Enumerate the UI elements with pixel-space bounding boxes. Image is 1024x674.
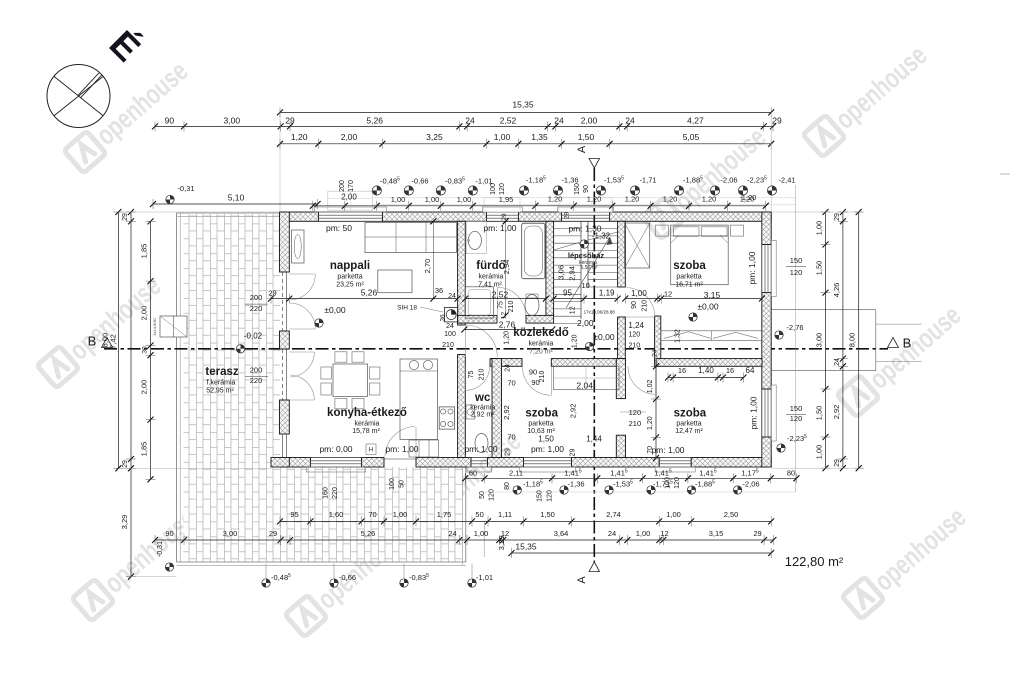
wall konyha-wc vertical: [458, 355, 466, 458]
svg-text:150: 150: [537, 490, 544, 502]
svg-text:24: 24: [608, 529, 616, 538]
terrace outline right double edge: [461, 467, 463, 565]
left guide lines: [118, 211, 279, 213]
svg-text:200: 200: [250, 293, 263, 302]
kitchen stove: [439, 407, 454, 429]
svg-text:2,00: 2,00: [577, 318, 594, 328]
svg-text:3,29: 3,29: [120, 515, 129, 530]
wc sink: [466, 405, 475, 419]
svg-text:220: 220: [250, 304, 263, 313]
left wall konyha window 160 glazing: [283, 433, 287, 435]
svg-text:1,20: 1,20: [742, 193, 757, 202]
svg-text:2,52: 2,52: [492, 290, 509, 300]
top szoba nightstands: [656, 225, 669, 236]
svg-text:220: 220: [332, 487, 339, 499]
staircase treads right flight: [588, 228, 618, 230]
left wall terrace door nappali 200/220 glazing: [282, 272, 284, 331]
compass north double pointer: [78, 73, 99, 96]
compass cross line 1: [54, 77, 103, 116]
svg-text:3,00: 3,00: [815, 333, 824, 348]
bottom level markers under terrace: [262, 579, 270, 587]
svg-text:120: 120: [488, 489, 495, 501]
svg-text:95: 95: [290, 510, 298, 519]
top dimension chain row 2: [155, 125, 773, 127]
bottom total 15.35: [512, 552, 772, 554]
svg-text:16,71 m²: 16,71 m²: [675, 282, 703, 289]
svg-text:29: 29: [834, 213, 841, 221]
wall wc-szoba middle: [492, 359, 502, 458]
svg-text:150: 150: [574, 183, 581, 195]
terrace brick paving (left strip): [184, 214, 281, 562]
svg-text:SIH 18: SIH 18: [397, 305, 417, 312]
svg-text:24: 24: [448, 293, 456, 300]
svg-text:2,00: 2,00: [140, 306, 149, 321]
svg-text:2,00: 2,00: [341, 132, 358, 142]
svg-text:-1,185: -1,185: [523, 480, 543, 489]
svg-text:80: 80: [504, 482, 511, 490]
bottom exterior wall segments: [280, 458, 310, 468]
svg-text:szoba: szoba: [525, 408, 558, 420]
svg-text:1,00: 1,00: [666, 510, 681, 519]
svg-text:29: 29: [834, 459, 841, 467]
svg-text:A: A: [576, 145, 588, 153]
right guide lines: [771, 211, 859, 213]
staircase break line: [554, 242, 581, 250]
watermark cluster 6: [72, 503, 202, 622]
door furdo: [497, 288, 499, 316]
svg-text:29: 29: [122, 213, 129, 221]
top szoba interior dim 1,00|12|3,15: [625, 298, 762, 300]
svg-text:24: 24: [446, 323, 454, 330]
svg-text:1,50: 1,50: [578, 132, 595, 142]
watermark cluster 2: [642, 121, 772, 240]
svg-text:24: 24: [625, 115, 635, 125]
window szoba-right bottom 100: [658, 458, 660, 468]
svg-text:90: 90: [165, 115, 175, 125]
middle szoba closet 2.04: [554, 366, 620, 389]
guide line below szoba window: [483, 521, 485, 557]
svg-text:pm: 1,00: pm: 1,00: [464, 444, 497, 454]
right eaves guide line: [795, 185, 797, 492]
svg-text:10: 10: [582, 281, 590, 290]
svg-text:közlekedő: közlekedő: [513, 327, 569, 339]
svg-text:-0,485: -0,485: [271, 573, 291, 582]
watermark cluster 1: [64, 55, 194, 174]
svg-text:7,42: 7,42: [109, 334, 118, 349]
kitchen counter: [400, 359, 438, 439]
svg-text:24: 24: [554, 115, 564, 125]
svg-text:1,11: 1,11: [498, 510, 512, 519]
svg-text:2,92 m²: 2,92 m²: [471, 412, 495, 419]
top level row dimension line: [313, 205, 766, 207]
svg-text:1,75: 1,75: [437, 510, 452, 519]
bottom row 3 (90|3,00|29|5,26|24|1,00|12|3,64|24|1,00|12|3,15|29): [155, 539, 773, 541]
nappali interior dim 5.26: [271, 298, 458, 300]
top-left terrace dimension 5.10: [153, 203, 318, 205]
svg-text:12: 12: [501, 312, 508, 320]
svg-text:1,00: 1,00: [636, 529, 651, 538]
svg-text:5,26: 5,26: [361, 288, 378, 298]
svg-text:2,52: 2,52: [500, 115, 517, 125]
svg-text:2,94: 2,94: [502, 260, 511, 275]
svg-text:1,35: 1,35: [531, 132, 548, 142]
top guide ticks row3 to wall: [279, 112, 281, 212]
svg-text:90: 90: [165, 529, 173, 538]
svg-text:1,85: 1,85: [140, 244, 149, 259]
wall lepcsohaz-szoba lower (below stair door): [618, 317, 626, 359]
svg-text:2,11: 2,11: [509, 468, 523, 477]
svg-text:200: 200: [250, 365, 263, 374]
svg-text:1,20: 1,20: [571, 334, 578, 348]
top szoba wardrobe: [625, 223, 650, 268]
top exterior wall segments: [280, 212, 318, 221]
svg-text:konyha-étkező: konyha-étkező: [327, 407, 407, 419]
svg-text:2,92: 2,92: [502, 405, 511, 420]
svg-text:pm: 0,00: pm: 0,00: [319, 444, 352, 454]
svg-text:kerámia: kerámia: [355, 421, 380, 428]
svg-text:1,85: 1,85: [140, 442, 149, 457]
svg-text:1,02: 1,02: [647, 379, 654, 393]
svg-text:29: 29: [501, 213, 508, 221]
svg-text:4,26: 4,26: [832, 283, 841, 298]
left totals: [117, 212, 119, 468]
konyha chairs: [335, 352, 347, 362]
svg-text:1,20: 1,20: [503, 331, 510, 345]
svg-text:120: 120: [547, 490, 554, 502]
svg-text:1,44: 1,44: [586, 435, 602, 444]
svg-text:-0,835: -0,835: [445, 177, 465, 186]
svg-text:1,50: 1,50: [815, 406, 824, 421]
nappali coffee table: [378, 270, 412, 293]
right chain rooms: [842, 212, 844, 468]
svg-text:64: 64: [746, 366, 755, 375]
terrace entry steps: [160, 316, 187, 337]
svg-text:kerámia: kerámia: [529, 341, 554, 348]
bottom level markers row: [513, 486, 521, 494]
svg-text:pm: 1,00: pm: 1,00: [747, 251, 757, 284]
top-left level marker -0.31: [166, 195, 174, 203]
section marker A bottom: [589, 562, 600, 572]
svg-text:3,06: 3,06: [557, 265, 566, 280]
svg-text:-2,06: -2,06: [720, 176, 737, 185]
svg-text:-1,185: -1,185: [526, 176, 546, 185]
svg-text:17x18,06/28,88: 17x18,06/28,88: [584, 310, 616, 315]
fraction lines for stacked dims: [245, 303, 268, 305]
svg-text:150: 150: [790, 256, 803, 265]
terrace brick paving (bottom strip): [280, 467, 462, 562]
svg-text:pm: 1,00: pm: 1,00: [749, 396, 759, 429]
svg-text:-1,01: -1,01: [476, 573, 493, 582]
right level marker -2.23: [777, 444, 785, 452]
svg-text:1,40: 1,40: [698, 366, 714, 375]
svg-text:24: 24: [505, 364, 512, 372]
canopy above furdo window: [484, 198, 520, 212]
svg-text:1,00: 1,00: [631, 289, 647, 298]
svg-text:220: 220: [250, 376, 263, 385]
svg-text:H: H: [369, 448, 373, 454]
svg-text:29: 29: [753, 529, 761, 538]
kozlekedo-wc top wall (right of wc door opening): [490, 359, 522, 367]
staircase center divider: [580, 221, 582, 319]
right chain windows: [825, 212, 827, 468]
svg-text:1,20: 1,20: [663, 195, 678, 204]
terrace outline top edge: [177, 212, 280, 214]
svg-text:2,04: 2,04: [576, 380, 593, 390]
top szoba southwest wall stub: [655, 316, 661, 366]
svg-text:100: 100: [389, 478, 396, 490]
svg-text:1,20: 1,20: [625, 195, 640, 204]
svg-text:szoba: szoba: [674, 408, 707, 420]
svg-text:wc: wc: [474, 392, 491, 404]
door top szoba from stair landing: [625, 316, 654, 318]
roof eaves light lines above north wall: [374, 197, 796, 199]
svg-text:nappali: nappali: [330, 260, 370, 272]
bottom-right szoba interior chain: [655, 366, 657, 458]
wall furdo-lepcsohaz: [546, 221, 554, 315]
svg-text:210: 210: [629, 419, 642, 428]
svg-text:1,32: 1,32: [675, 329, 682, 343]
furdo bottom wall segments with door opening: [458, 315, 497, 323]
nappali sofa: [365, 223, 457, 253]
wall between bottom szoba rooms with opening: [616, 359, 625, 399]
svg-text:24: 24: [448, 529, 456, 538]
svg-text:5,26: 5,26: [366, 115, 383, 125]
right exterior wall segments: [762, 212, 771, 245]
section marker B right: [888, 338, 899, 348]
svg-text:1,20: 1,20: [548, 195, 563, 204]
svg-text:-2,06: -2,06: [742, 480, 759, 489]
svg-text:parketta: parketta: [676, 274, 701, 281]
door szoba middle: [550, 366, 552, 395]
svg-text:210: 210: [479, 369, 486, 381]
svg-text:3,00: 3,00: [223, 529, 238, 538]
svg-text:29: 29: [505, 448, 512, 456]
canopy above lepcso window: [559, 198, 612, 212]
wall lepcsohaz-szoba upper: [618, 221, 626, 287]
svg-text:70: 70: [507, 433, 515, 442]
svg-text:170: 170: [348, 180, 355, 192]
svg-text:210: 210: [442, 342, 454, 349]
svg-text:12: 12: [569, 306, 576, 314]
svg-text:f.kerámia: f.kerámia: [207, 380, 236, 387]
top dimension chain row 3: [280, 143, 771, 145]
svg-text:±0,00: ±0,00: [593, 332, 614, 342]
svg-text:52,95 m²: 52,95 m²: [206, 388, 234, 395]
svg-text:lépcsőház: lépcsőház: [568, 251, 605, 260]
left wall terrace door konyha 200/220 glazing: [282, 349, 284, 400]
svg-text:70: 70: [507, 379, 515, 388]
svg-text:1,20: 1,20: [702, 195, 717, 204]
svg-text:120: 120: [629, 408, 642, 417]
svg-text:100: 100: [444, 331, 456, 338]
svg-text:3,15: 3,15: [704, 290, 721, 300]
svg-text:-0,31: -0,31: [177, 184, 194, 193]
svg-text:90: 90: [583, 185, 590, 193]
svg-text:±0,00: ±0,00: [697, 302, 718, 312]
right total 8.00: [858, 212, 860, 468]
svg-text:29: 29: [122, 460, 129, 468]
section line A-A vertical dash-dot: [593, 168, 595, 562]
svg-text:-0,485: -0,485: [380, 177, 400, 186]
terrace outline bottom double edge: [177, 561, 466, 563]
svg-text:15,78 m²: 15,78 m²: [352, 428, 380, 435]
svg-text:16: 16: [678, 366, 686, 375]
svg-text:-1,535: -1,535: [604, 176, 624, 185]
section line B-B horizontal dash-dot: [104, 348, 888, 350]
svg-text:1,50: 1,50: [540, 510, 555, 519]
svg-text:29: 29: [570, 449, 577, 457]
svg-text:2,00: 2,00: [140, 380, 149, 395]
top szoba closet row with hanging symbol: [661, 331, 762, 341]
window wc bottom 50: [470, 458, 472, 468]
svg-text:210: 210: [628, 343, 640, 350]
svg-text:2,70: 2,70: [423, 259, 432, 274]
svg-text:5,26: 5,26: [361, 529, 376, 538]
svg-text:-2,235: -2,235: [747, 176, 767, 185]
svg-text:36: 36: [440, 314, 447, 322]
bottom-right szoba top wall dim 16|1,40|16|64: [668, 377, 744, 379]
svg-text:210: 210: [641, 300, 648, 312]
svg-text:36: 36: [435, 286, 443, 295]
window lepcsohaz top 150: [561, 212, 563, 221]
svg-text:120: 120: [499, 183, 506, 195]
svg-text:-2,41: -2,41: [778, 176, 795, 185]
svg-text:pm: 1,00: pm: 1,00: [385, 444, 418, 454]
bottom row 1 (60|2,11|1,41x4|1,17|80): [465, 477, 796, 479]
door szoba bottom-right from kozlekedo: [655, 366, 657, 394]
left inner chain: [150, 221, 152, 479]
right level marker -2.76: [775, 331, 783, 339]
svg-text:75: 75: [468, 371, 475, 379]
svg-text:2,76: 2,76: [499, 320, 516, 330]
wall nappali-furdo: [458, 221, 466, 325]
svg-text:-2,235: -2,235: [787, 434, 807, 443]
bottom row 2 (95|1,60|70|1,00|1,75|50|1,11|1,50|2,74|1,00|2,50): [280, 520, 771, 522]
left exterior wall segments: [280, 212, 290, 272]
canopy above nappali window: [328, 191, 373, 210]
svg-text:1,00: 1,00: [494, 132, 511, 142]
svg-text:2,00: 2,00: [581, 115, 598, 125]
svg-text:120: 120: [628, 332, 640, 339]
svg-text:parketta: parketta: [528, 421, 553, 428]
nappali sideboard with plant: [292, 230, 305, 263]
svg-text:120: 120: [790, 268, 803, 277]
svg-text:1,00: 1,00: [425, 195, 440, 204]
svg-text:80: 80: [787, 468, 795, 477]
svg-text:1,19: 1,19: [599, 288, 615, 297]
svg-text:-0,66: -0,66: [411, 177, 428, 186]
svg-text:120: 120: [674, 477, 681, 489]
window top szoba right 150: [762, 244, 771, 246]
north compass circle: [47, 65, 110, 128]
svg-text:2,74: 2,74: [606, 510, 621, 519]
left outer chain: [130, 212, 132, 577]
svg-text:1,50: 1,50: [538, 435, 554, 444]
svg-text:±0,00: ±0,00: [324, 305, 345, 315]
svg-text:60: 60: [469, 468, 477, 477]
svg-text:-1,885: -1,885: [695, 480, 715, 489]
furdo interior dim line 2.94: [505, 221, 507, 315]
svg-text:29: 29: [285, 115, 295, 125]
svg-text:pm: 1,00: pm: 1,00: [483, 223, 516, 233]
staircase treads left flight: [554, 228, 581, 230]
compass cross line 2: [54, 77, 103, 116]
svg-text:-1,36: -1,36: [567, 480, 584, 489]
svg-text:29: 29: [269, 529, 277, 538]
svg-text:1,95: 1,95: [499, 195, 514, 204]
svg-text:-0,02: -0,02: [244, 332, 263, 341]
roof eaves light line below south wall: [484, 491, 796, 493]
svg-text:terasz: terasz: [205, 366, 238, 378]
svg-text:2x14,5/30: 2x14,5/30: [152, 317, 157, 335]
svg-text:1,00: 1,00: [474, 529, 489, 538]
terrace outline left double edge: [176, 213, 178, 562]
svg-text:4,27: 4,27: [687, 115, 704, 125]
watermark cluster 5: [397, 425, 527, 544]
watermark cluster 7: [285, 519, 415, 638]
svg-text:-1,36: -1,36: [561, 176, 578, 185]
furdo bathtub: [522, 223, 545, 279]
wc bowl: [475, 434, 488, 453]
svg-text:pm: 1,00: pm: 1,00: [531, 444, 564, 454]
svg-text:24: 24: [465, 115, 475, 125]
svg-text:15,35: 15,35: [512, 100, 534, 110]
window nappali top 200/170: [317, 212, 319, 221]
svg-text:5,10: 5,10: [228, 193, 245, 203]
svg-text:2,94: 2,94: [568, 266, 577, 281]
furdo sink counter: [466, 221, 486, 253]
konyha dining table: [333, 364, 368, 397]
furdo shower tray: [465, 287, 493, 318]
svg-text:29: 29: [772, 115, 782, 125]
svg-text:1,20: 1,20: [587, 195, 602, 204]
svg-text:3,25: 3,25: [426, 132, 443, 142]
furdo sink: [468, 231, 481, 249]
svg-text:50: 50: [475, 510, 483, 519]
svg-text:-1,885: -1,885: [683, 176, 703, 185]
svg-text:90: 90: [631, 301, 638, 309]
svg-text:1,20: 1,20: [647, 416, 654, 430]
svg-text:100: 100: [490, 183, 497, 195]
svg-text:150: 150: [790, 404, 803, 413]
svg-text:5,50 m²: 5,50 m²: [581, 265, 598, 271]
svg-text:2,92: 2,92: [569, 404, 578, 419]
svg-text:12,47 m²: 12,47 m²: [675, 428, 703, 435]
svg-text:parketta: parketta: [676, 421, 701, 428]
svg-text:1,00: 1,00: [815, 221, 824, 236]
svg-text:kerámia: kerámia: [479, 274, 504, 281]
svg-text:30: 30: [142, 346, 149, 354]
svg-text:1,00: 1,00: [393, 510, 408, 519]
svg-text:24: 24: [834, 358, 841, 366]
window furdo top 100: [485, 212, 487, 221]
svg-text:B: B: [88, 334, 97, 349]
svg-text:3,29: 3,29: [497, 536, 506, 551]
svg-text:210: 210: [539, 371, 546, 383]
svg-text:12: 12: [660, 529, 668, 538]
svg-text:3,00: 3,00: [224, 115, 241, 125]
svg-text:-0,31: -0,31: [157, 541, 164, 557]
svg-text:160: 160: [323, 487, 330, 499]
svg-text:1,50: 1,50: [815, 261, 824, 276]
window bottom szoba right 150: [762, 388, 771, 390]
svg-text:1,00: 1,00: [815, 445, 824, 460]
top szoba bed: [671, 225, 729, 285]
konyha french doors from terrace: [289, 351, 314, 353]
watermark cluster 8: [842, 501, 972, 620]
svg-text:29: 29: [564, 212, 571, 220]
svg-text:kerámia: kerámia: [470, 405, 495, 412]
